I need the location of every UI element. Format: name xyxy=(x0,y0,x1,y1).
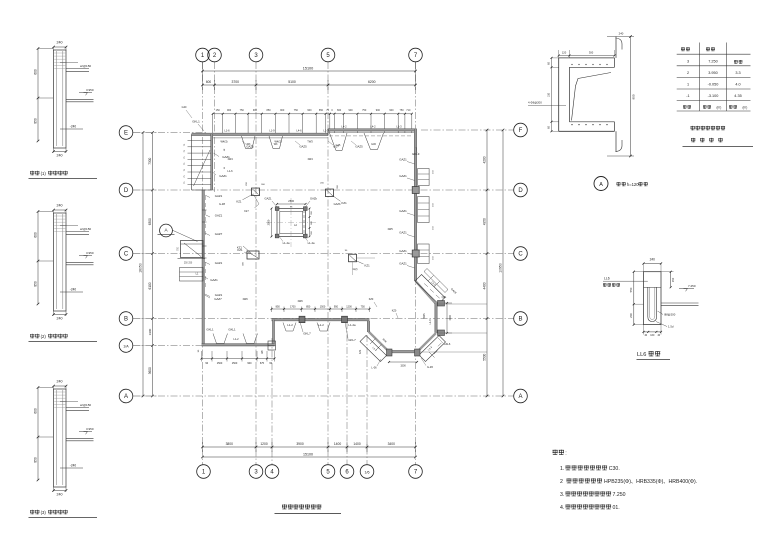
svg-text:2: 2 xyxy=(560,479,563,485)
bay wall bottom horizontal xyxy=(389,351,418,353)
svg-text:4950: 4950 xyxy=(482,218,486,225)
axis circle C left xyxy=(119,247,133,261)
svg-text:L1-2: L1-2 xyxy=(287,323,293,327)
axis 7 line xyxy=(415,62,417,465)
axis 5 line xyxy=(327,62,329,465)
1/A wall bottom dim xyxy=(202,358,275,360)
right wall window ladder 2 xyxy=(418,197,430,223)
svg-text:GAZ1: GAZ1 xyxy=(399,209,407,213)
central opening dashed right edge xyxy=(303,210,305,236)
svg-text:1/6: 1/6 xyxy=(365,471,370,475)
svg-text:240: 240 xyxy=(619,32,624,36)
axis circle 2 top xyxy=(208,48,222,62)
svg-text:900: 900 xyxy=(280,109,285,112)
svg-text:GAZ1: GAZ1 xyxy=(215,194,223,198)
bay beam lower-right hatch xyxy=(429,352,435,358)
top sub dims xyxy=(203,84,416,86)
B wall dim line xyxy=(272,308,370,310)
axis circle B left xyxy=(119,312,133,326)
left overall dim 16050 xyxy=(142,133,144,397)
bay beam rect lower-right diagonal xyxy=(419,336,446,362)
svg-text:7.250: 7.250 xyxy=(708,60,718,64)
svg-text:GAZb: GAZb xyxy=(334,202,341,206)
svg-text:LL6: LL6 xyxy=(604,277,610,281)
bay right dim assembly xyxy=(446,303,448,333)
central opening corner columns xyxy=(275,207,279,211)
LL6 level mark xyxy=(679,288,694,290)
wall opening detail 3 left dim xyxy=(37,388,39,481)
svg-text:6300: 6300 xyxy=(148,218,152,225)
svg-text:1400: 1400 xyxy=(353,442,361,446)
svg-text:850: 850 xyxy=(306,305,311,308)
svg-text:(m): (m) xyxy=(717,106,722,110)
wall opening detail 1 left dim xyxy=(37,49,39,142)
svg-text:L1-3: L1-3 xyxy=(429,319,432,325)
svg-text:KZ0: KZ0 xyxy=(392,310,397,313)
wall opening detail 2 lower slab lines xyxy=(66,261,94,263)
svg-text:15100: 15100 xyxy=(303,66,314,70)
axis B line xyxy=(133,318,514,320)
svg-text:1200: 1200 xyxy=(346,305,352,308)
svg-text:900: 900 xyxy=(376,109,381,112)
central opening inner square xyxy=(280,211,303,233)
svg-text:L1-2: L1-2 xyxy=(233,337,239,341)
svg-text:GAZ1: GAZ1 xyxy=(399,174,407,178)
LL6 inner U stirrup xyxy=(648,287,657,321)
floor table footer xyxy=(683,105,687,109)
central opening outer square xyxy=(277,209,306,237)
stair shaft outline xyxy=(191,134,193,190)
svg-text:650: 650 xyxy=(319,109,324,112)
svg-text:750: 750 xyxy=(399,109,404,112)
svg-text:-240: -240 xyxy=(70,288,77,292)
axis D line xyxy=(133,189,514,191)
svg-text:240: 240 xyxy=(57,41,63,45)
svg-text:LL6: LL6 xyxy=(637,352,646,358)
table caption underline xyxy=(683,146,754,148)
svg-text:G-Z8: G-Z8 xyxy=(219,202,225,206)
svg-text:250 250: 250 250 xyxy=(184,263,193,265)
axis circle 5 top xyxy=(321,48,335,62)
B wall trapezoid marks xyxy=(283,323,296,332)
svg-text:710: 710 xyxy=(406,109,411,112)
axis 1/A line xyxy=(133,345,272,347)
svg-text:15100: 15100 xyxy=(303,452,313,456)
LL6 outer rect xyxy=(644,272,662,325)
top fine dim row xyxy=(213,113,412,115)
B-axis wall (bottom, axes 4-1/6) xyxy=(272,319,370,321)
svg-text:C: C xyxy=(124,252,129,258)
svg-text:1700: 1700 xyxy=(290,305,296,308)
wall opening detail 2 level mark xyxy=(79,255,92,257)
svg-text:W4(3): W4(3) xyxy=(220,139,227,143)
LL6 left dim xyxy=(633,272,635,325)
detail 3 title xyxy=(30,510,34,515)
section rebar dots xyxy=(571,64,572,65)
svg-text:K27: K27 xyxy=(244,210,249,213)
svg-text:KZ1: KZ1 xyxy=(237,246,243,250)
svg-text:A: A xyxy=(518,394,522,400)
left wall (axis 1) xyxy=(202,190,204,346)
svg-text:L1-6: L1-6 xyxy=(224,129,230,133)
svg-text:(3): (3) xyxy=(41,510,47,515)
top overall dim 15100 xyxy=(203,70,416,72)
svg-text:900: 900 xyxy=(227,109,232,112)
svg-text:3: 3 xyxy=(687,60,689,64)
wall opening detail 1 hole leader xyxy=(60,128,83,130)
axis circle 1 top xyxy=(196,48,210,62)
svg-text:L4-2: L4-2 xyxy=(341,125,347,129)
svg-text:(1): (1) xyxy=(41,171,47,176)
svg-text:HPB235(Φ)、HRB335(Φ)、HRB400(Φ).: HPB235(Φ)、HRB335(Φ)、HRB400(Φ). xyxy=(604,479,697,485)
svg-text:1500: 1500 xyxy=(217,362,223,365)
svg-text:-240: -240 xyxy=(70,125,77,129)
svg-text:150: 150 xyxy=(671,277,675,282)
svg-text:300: 300 xyxy=(589,51,594,55)
bay wall diagonal upper xyxy=(416,281,437,304)
svg-text:7.250: 7.250 xyxy=(613,492,626,498)
axis circle 1/6 bottom xyxy=(360,465,374,479)
svg-text:3600: 3600 xyxy=(148,367,152,374)
svg-text:GAZ1: GAZ1 xyxy=(215,261,223,265)
svg-text:KZ0: KZ0 xyxy=(369,298,374,301)
svg-text:F: F xyxy=(519,128,523,134)
svg-text:GA5: GA5 xyxy=(371,143,376,146)
svg-text:600: 600 xyxy=(34,408,38,414)
section top-left dim xyxy=(559,55,615,57)
svg-text:1/A: 1/A xyxy=(123,345,129,349)
axis 4 line xyxy=(271,338,273,465)
svg-text:1500: 1500 xyxy=(449,315,452,321)
svg-text:2500: 2500 xyxy=(267,219,271,225)
bay bottom dim assembly xyxy=(389,361,417,363)
column KZ1 at 3/C xyxy=(247,251,259,259)
axis A line xyxy=(133,395,514,397)
bottom overall dim 15100 xyxy=(203,456,416,458)
svg-text:GAZ1: GAZ1 xyxy=(264,197,272,201)
svg-text:GAZ5: GAZ5 xyxy=(246,145,254,149)
axis circle 5 bottom xyxy=(321,465,335,479)
svg-text:-0.050: -0.050 xyxy=(708,83,719,87)
svg-text:120: 120 xyxy=(562,51,567,55)
svg-text:GKL6: GKL6 xyxy=(444,342,451,346)
svg-text:200: 200 xyxy=(629,313,633,318)
wall niche rectangle xyxy=(181,241,204,258)
section wall below with hook xyxy=(615,131,617,152)
svg-text:600: 600 xyxy=(34,69,38,75)
svg-text:L1-6: L1-6 xyxy=(227,169,233,173)
column at 7/C on wall xyxy=(412,250,419,257)
svg-text:150: 150 xyxy=(216,109,221,112)
svg-text:B: B xyxy=(124,317,128,323)
axis circle E left xyxy=(119,126,133,140)
section rebar curve xyxy=(572,73,612,121)
section detail top-right: C shape outer xyxy=(559,57,615,59)
svg-text:1500: 1500 xyxy=(232,362,238,365)
svg-text:-1: -1 xyxy=(686,94,689,98)
axis C line xyxy=(133,253,514,255)
section right tall dim xyxy=(630,37,632,157)
axis F line xyxy=(421,129,514,131)
svg-text:850: 850 xyxy=(34,118,38,124)
svg-text:GAZ1: GAZ1 xyxy=(215,214,223,218)
svg-text:A: A xyxy=(599,182,603,188)
right wall (axis 7) xyxy=(414,129,416,281)
svg-text:1400: 1400 xyxy=(334,442,342,446)
svg-text:GAZ7: GAZ7 xyxy=(214,297,222,301)
svg-text:1W4: 1W4 xyxy=(227,157,233,161)
lower left window ladder xyxy=(180,268,204,282)
detail marker note text xyxy=(617,182,621,186)
section marker leader xyxy=(172,230,198,242)
axis circle 4 bottom xyxy=(265,465,279,479)
detail 1 title xyxy=(30,171,34,176)
svg-text:L4-2: L4-2 xyxy=(370,125,376,129)
svg-text:GAZ1: GAZ1 xyxy=(219,174,227,178)
svg-text:4400: 4400 xyxy=(482,282,486,289)
svg-text:B: B xyxy=(518,317,522,323)
svg-text:2500: 2500 xyxy=(288,199,294,203)
svg-text:G(2): G(2) xyxy=(353,268,358,271)
svg-text:750: 750 xyxy=(240,109,245,112)
svg-text:GAZ7: GAZ7 xyxy=(215,232,223,236)
axis circle D left xyxy=(119,183,133,197)
svg-text:D: D xyxy=(518,188,523,194)
central opening center lines xyxy=(266,222,316,224)
axis 2 line xyxy=(214,62,216,192)
LL6 top right dim xyxy=(670,272,672,288)
svg-text:GAZ5: GAZ5 xyxy=(355,145,363,149)
table caption line 2 xyxy=(691,138,695,143)
1/A wall trapezoids xyxy=(213,334,228,344)
svg-text:L1-4a: L1-4a xyxy=(283,241,290,245)
svg-text:675: 675 xyxy=(260,362,265,365)
svg-text:3400: 3400 xyxy=(388,442,396,446)
axis 1 line xyxy=(202,62,204,465)
svg-text:TW3: TW3 xyxy=(307,139,313,143)
wall opening detail 2 wall section xyxy=(54,213,67,311)
svg-text:Φ6@200: Φ6@200 xyxy=(531,101,543,105)
axis 1/6 line xyxy=(366,335,368,465)
svg-text:KZ1: KZ1 xyxy=(365,264,371,268)
wall opening detail 3 wall section xyxy=(54,389,67,487)
wall opening detail 1 lower slab lines xyxy=(66,98,94,100)
LL6 slab top line xyxy=(644,286,662,288)
svg-text:L1-2: L1-2 xyxy=(318,323,324,327)
section marker circle A xyxy=(160,224,173,237)
wall opening detail 2 hole leader xyxy=(60,291,83,293)
svg-text:GKL1: GKL1 xyxy=(228,328,236,332)
svg-text:QZ1: QZ1 xyxy=(442,296,447,299)
wall opening detail 2 left dim xyxy=(37,212,39,305)
axis circle D right xyxy=(514,183,528,197)
svg-text:1.: 1. xyxy=(560,466,564,472)
svg-text:3900: 3900 xyxy=(296,442,304,446)
central opening top dim xyxy=(277,203,306,205)
section wall above with hook xyxy=(615,37,617,58)
svg-text:W05: W05 xyxy=(423,313,426,319)
bottom-left wall (1/A axis) xyxy=(202,344,275,346)
svg-text:850: 850 xyxy=(34,281,38,287)
bay beam lower-left hatch xyxy=(370,339,376,345)
plan title xyxy=(282,504,287,509)
axis circle B right xyxy=(514,312,528,326)
svg-text:L1-2a: L1-2a xyxy=(348,323,356,327)
svg-text:1W4: 1W4 xyxy=(307,157,313,161)
bay beam rect lower-left diagonal xyxy=(360,336,387,362)
svg-text:L1-3: L1-3 xyxy=(323,129,329,133)
svg-text:L-06: L-06 xyxy=(371,366,377,370)
svg-text:W4(3): W4(3) xyxy=(274,139,281,143)
wall opening detail 1 slab lines xyxy=(66,68,89,70)
svg-text:1.5d: 1.5d xyxy=(668,325,674,329)
small marks near A/4 axis xyxy=(268,341,276,350)
svg-text:3800: 3800 xyxy=(226,442,234,446)
svg-text:KZ1: KZ1 xyxy=(342,201,348,205)
slab mark trapezoid large 2 xyxy=(364,133,384,150)
bay wall right vertical xyxy=(435,303,437,333)
wall opening detail 2 bottom dim 240 xyxy=(53,311,55,316)
svg-text:10950: 10950 xyxy=(498,263,502,273)
floor table vertical separators xyxy=(699,43,701,112)
svg-text:850: 850 xyxy=(34,457,38,463)
svg-text:950: 950 xyxy=(334,305,339,308)
svg-text::: : xyxy=(565,451,567,457)
central opening right dims xyxy=(309,209,311,237)
svg-text:-3.100: -3.100 xyxy=(708,94,719,98)
wall step axis 4 vertical xyxy=(273,320,275,346)
wall opening detail 1 wall section xyxy=(54,50,67,148)
axis circle 6 bottom xyxy=(340,465,354,479)
svg-text:160: 160 xyxy=(650,334,655,337)
svg-text:240: 240 xyxy=(57,380,63,384)
svg-text:GKL9: GKL9 xyxy=(412,152,420,156)
svg-text:1W6: 1W6 xyxy=(242,297,248,301)
svg-text:1500: 1500 xyxy=(320,305,326,308)
svg-text:660: 660 xyxy=(337,109,342,112)
axis 6 line xyxy=(346,322,348,465)
svg-text:900: 900 xyxy=(348,109,353,112)
svg-text:4.0: 4.0 xyxy=(735,83,740,87)
slab mark trapezoid 2 xyxy=(269,136,283,149)
svg-text:1W5: 1W5 xyxy=(387,227,393,231)
svg-text:550: 550 xyxy=(629,287,633,292)
right wall window ladder 1 xyxy=(418,169,430,186)
svg-text:900: 900 xyxy=(247,362,252,365)
svg-text:w/@150: w/@150 xyxy=(80,227,91,231)
svg-text:C: C xyxy=(518,252,523,258)
svg-text:L1-3: L1-3 xyxy=(396,125,402,129)
svg-text:3.950: 3.950 xyxy=(86,427,94,431)
floor table header text xyxy=(681,47,685,51)
wall opening detail 3 hole leader xyxy=(60,467,83,469)
svg-text:750: 750 xyxy=(362,109,367,112)
svg-text:G-Z6: G-Z6 xyxy=(427,365,433,369)
floor table lines xyxy=(677,53,751,55)
wall opening detail 2 slab lines xyxy=(66,231,89,233)
bay beam rect upper diagonal second xyxy=(424,269,448,293)
svg-text:w/@150: w/@150 xyxy=(80,403,91,407)
axis circle 7 bottom xyxy=(409,465,423,479)
right overall dim 10950 xyxy=(502,130,504,396)
svg-text:01.: 01. xyxy=(613,505,620,511)
bay wall diagonal lower-right xyxy=(417,333,436,352)
axis circle A left xyxy=(119,389,133,403)
svg-text:1200: 1200 xyxy=(260,442,268,446)
central opening left dim xyxy=(271,209,273,237)
svg-text:1500: 1500 xyxy=(400,365,406,368)
svg-text:6100: 6100 xyxy=(148,282,152,289)
top wall inner face line xyxy=(212,137,328,139)
stair break diagonal xyxy=(194,150,211,186)
svg-text:750: 750 xyxy=(361,305,366,308)
svg-text:900: 900 xyxy=(631,94,635,99)
svg-text:6200: 6200 xyxy=(368,80,376,84)
bay extension lines to right dims xyxy=(438,303,487,305)
stair shaft right wall xyxy=(211,134,213,190)
svg-text:3.950: 3.950 xyxy=(708,71,718,75)
svg-text:A: A xyxy=(124,394,128,400)
wall opening detail 1 level mark xyxy=(79,92,92,94)
section left dims xyxy=(551,58,553,131)
svg-text:G40: G40 xyxy=(182,106,187,109)
svg-text:150: 150 xyxy=(548,92,551,97)
column KZ1 at 5a/C xyxy=(349,254,357,262)
column KZ1 at 3/D xyxy=(252,188,260,196)
svg-text:4.35: 4.35 xyxy=(734,94,741,98)
svg-text:h=120: h=120 xyxy=(627,182,639,187)
axis circle A right xyxy=(514,389,528,403)
column KZ1 at 5/D xyxy=(326,189,334,197)
axis E line xyxy=(133,132,206,134)
section detail inner lines xyxy=(569,66,614,68)
svg-text:(2): (2) xyxy=(41,334,47,339)
svg-text:w/@150: w/@150 xyxy=(80,64,91,68)
svg-text:240: 240 xyxy=(57,317,63,321)
left wall dashes xyxy=(204,196,206,238)
svg-text:750: 750 xyxy=(294,109,299,112)
niche bottom line xyxy=(178,258,206,260)
svg-text:7.250: 7.250 xyxy=(688,284,696,288)
svg-text:D: D xyxy=(124,188,129,194)
svg-text:Φ8@200: Φ8@200 xyxy=(664,313,676,317)
svg-text:240: 240 xyxy=(57,204,63,208)
svg-text:-240: -240 xyxy=(70,464,77,468)
right sub dims xyxy=(486,130,488,396)
bay wall left vertical xyxy=(367,321,369,332)
axis circle 7 top xyxy=(409,48,423,62)
detail 2 title xyxy=(30,334,34,339)
svg-text:GAZ1: GAZ1 xyxy=(210,278,218,282)
wall opening detail 3 bottom dim 240 xyxy=(53,487,55,492)
svg-text:GAZ1: GAZ1 xyxy=(399,249,407,253)
bay beam rect upper diagonal xyxy=(415,275,445,305)
axis circle 1/A left xyxy=(119,339,133,353)
svg-text:E: E xyxy=(124,131,128,137)
svg-text:GAZ1: GAZ1 xyxy=(399,231,407,235)
section top extension and text xyxy=(607,36,634,38)
svg-text:7300: 7300 xyxy=(148,157,152,164)
axis circle 1 bottom xyxy=(197,465,211,479)
bottom sub dims xyxy=(203,446,416,448)
svg-text:3.3: 3.3 xyxy=(735,71,740,75)
left wall tick marks xyxy=(202,209,207,211)
svg-text:L1-4a: L1-4a xyxy=(308,241,315,245)
svg-text:900: 900 xyxy=(307,109,312,112)
table caption line 1 xyxy=(691,126,695,130)
axis 3 line xyxy=(255,62,257,465)
LL6 slab lines right xyxy=(661,302,699,304)
